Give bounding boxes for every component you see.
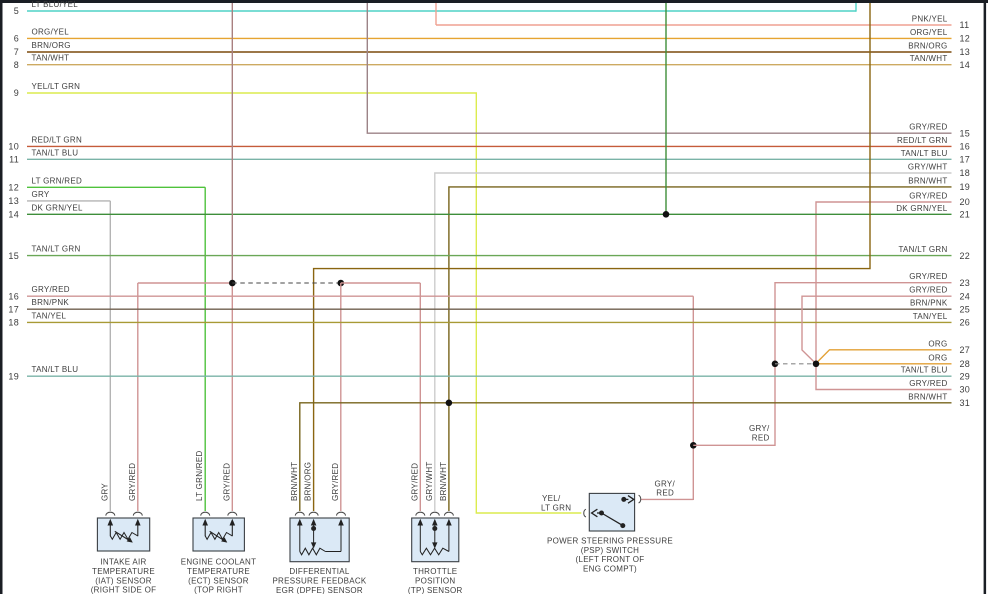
svg-text:19: 19 <box>8 371 19 381</box>
svg-text:BRN/PNK: BRN/PNK <box>910 299 948 308</box>
svg-text:GRY/RED: GRY/RED <box>909 379 947 388</box>
wire BRN/WHT pin19 to TP sensor <box>449 187 952 511</box>
svg-text:RED/LT GRN: RED/LT GRN <box>897 136 948 145</box>
svg-text:BRN/WHT: BRN/WHT <box>908 392 947 401</box>
svg-text:11: 11 <box>9 155 19 165</box>
resistor element <box>110 533 138 540</box>
connector arc at x=434.8 <box>430 512 439 515</box>
svg-text:TEMPERATURE: TEMPERATURE <box>92 567 155 576</box>
svg-text:DK GRN/YEL: DK GRN/YEL <box>896 204 948 213</box>
svg-text:TAN/LT GRN: TAN/LT GRN <box>32 245 81 254</box>
svg-text:(LEFT FRONT OF: (LEFT FRONT OF <box>576 555 645 564</box>
svg-text:14: 14 <box>8 210 19 220</box>
svg-text:GRY/RED: GRY/RED <box>410 463 419 501</box>
svg-text:DK GRN/YEL: DK GRN/YEL <box>32 203 84 212</box>
svg-text:10: 10 <box>8 142 19 152</box>
wire TAN/LT BLU pin19-pin29 <box>27 375 952 377</box>
svg-text:GRY/RED: GRY/RED <box>128 463 137 501</box>
wire GRY/RED pin15 from top <box>367 3 951 133</box>
svg-text:29: 29 <box>960 371 971 381</box>
svg-text:POWER STEERING PRESSURE: POWER STEERING PRESSURE <box>547 537 673 546</box>
svg-text:TAN/LT BLU: TAN/LT BLU <box>901 149 948 158</box>
svg-text:6: 6 <box>14 34 19 44</box>
wire PNK/YEL pin11 <box>436 24 952 26</box>
PSP right terminal arrow <box>624 498 629 500</box>
svg-text:PRESSURE FEEDBACK: PRESSURE FEEDBACK <box>272 577 366 586</box>
svg-text:BRN/WHT: BRN/WHT <box>290 462 299 501</box>
wire GRY pin13 run <box>27 200 110 202</box>
wire BRN/PNK pin17-pin25 <box>27 308 952 310</box>
wire YEL/LT GRN pin9 to PSP switch <box>27 93 581 513</box>
svg-text:17: 17 <box>960 155 971 165</box>
wire BRN/WHT pin31 from DPFE sensor <box>300 403 952 511</box>
svg-text:19: 19 <box>960 182 971 192</box>
svg-text:TAN/LT BLU: TAN/LT BLU <box>32 148 79 157</box>
svg-text:13: 13 <box>8 196 19 206</box>
svg-text:RED: RED <box>656 489 674 498</box>
wire TAN/YEL pin18-pin26 <box>27 321 952 323</box>
svg-text:TAN/LT BLU: TAN/LT BLU <box>901 366 948 375</box>
connector frame bar (top) <box>0 0 988 3</box>
svg-text:12: 12 <box>960 34 971 44</box>
terminal arrows <box>204 523 206 537</box>
svg-text:ORG: ORG <box>928 339 947 348</box>
svg-text:27: 27 <box>960 345 971 355</box>
wire DK GRN/YEL riser from top <box>665 3 667 214</box>
svg-text:GRY/: GRY/ <box>654 479 675 488</box>
svg-text:30: 30 <box>960 385 971 395</box>
svg-text:BRN/ORG: BRN/ORG <box>32 41 71 50</box>
svg-text:GRY/RED: GRY/RED <box>909 272 947 281</box>
svg-text:GRY/: GRY/ <box>749 424 770 433</box>
wire TAN/LT BLU pin11-pin17 <box>27 158 952 160</box>
svg-text:11: 11 <box>960 20 970 30</box>
svg-text:18: 18 <box>8 318 19 328</box>
wire GRY/RED riser from top through splice to ECT sensor <box>231 3 233 283</box>
svg-text:(ECT) SENSOR: (ECT) SENSOR <box>188 576 249 585</box>
svg-text:EGR (DPFE) SENSOR: EGR (DPFE) SENSOR <box>276 586 363 594</box>
connector frame bar (left) <box>0 0 3 594</box>
svg-text:GRY/RED: GRY/RED <box>222 463 231 501</box>
wire GRY/RED drop to DPFE sensor <box>340 283 342 511</box>
terminal arrows <box>419 523 421 552</box>
svg-text:LT GRN/RED: LT GRN/RED <box>32 176 83 185</box>
svg-text:THROTTLE: THROTTLE <box>413 567 457 576</box>
svg-text:26: 26 <box>960 318 971 328</box>
connector arc PSP right <box>639 495 641 503</box>
svg-text:ORG: ORG <box>928 353 947 362</box>
connector arc at x=420.3 <box>416 512 425 515</box>
svg-text:GRY/RED: GRY/RED <box>909 192 947 201</box>
svg-text:18: 18 <box>960 168 971 178</box>
wire LT GRN/RED drop to ECT sensor <box>204 187 206 511</box>
node junction splice J3 <box>813 361 820 368</box>
wire ORG pin27 to splice J3 <box>816 350 952 364</box>
svg-text:BRN/ORG: BRN/ORG <box>908 42 947 51</box>
svg-text:(PSP) SWITCH: (PSP) SWITCH <box>581 546 639 555</box>
svg-text:(TOP RIGHT: (TOP RIGHT <box>194 586 243 594</box>
connector arc at x=313.6 <box>309 512 318 515</box>
svg-text:TAN/YEL: TAN/YEL <box>32 311 67 320</box>
node junction GRY/RED J2 <box>772 361 779 368</box>
svg-text:RED/LT GRN: RED/LT GRN <box>32 135 83 144</box>
variable arrow <box>210 531 226 541</box>
svg-text:ENGINE COOLANT: ENGINE COOLANT <box>181 558 257 567</box>
svg-text:BRN/WHT: BRN/WHT <box>908 176 947 185</box>
connector arc at x=299.8 <box>295 512 304 515</box>
connector arc at x=205.2 <box>201 512 210 515</box>
wire GRY/RED drop to TP sensor <box>419 283 421 511</box>
svg-text:(TP) SENSOR: (TP) SENSOR <box>408 586 463 594</box>
component TP sensor <box>412 518 459 562</box>
svg-text:TAN/LT GRN: TAN/LT GRN <box>898 245 947 254</box>
svg-text:23: 23 <box>960 278 971 288</box>
variable arrow <box>115 531 132 541</box>
node splice S1 GRY/RED <box>229 280 236 287</box>
component DPFE sensor <box>290 518 349 562</box>
wire TAN/LT GRN pin15-pin22 <box>27 255 952 257</box>
wire BRN/ORG from top to DPFE sensor <box>314 3 870 511</box>
svg-text:8: 8 <box>14 60 19 70</box>
wire RED/LT GRN pin10-pin16 <box>27 145 952 147</box>
PSP left terminal arrow <box>597 512 602 514</box>
svg-text:TEMPERATURE: TEMPERATURE <box>187 567 250 576</box>
svg-text:GRY/WHT: GRY/WHT <box>425 461 434 501</box>
wire ORG/YEL pin6-pin12 <box>27 37 952 39</box>
terminal arrows <box>109 523 111 537</box>
svg-text:21: 21 <box>960 210 971 220</box>
wire GRY/RED pin24 to splice J3 <box>802 296 952 363</box>
svg-text:LT BLU/YEL: LT BLU/YEL <box>32 0 79 9</box>
svg-text:(IAT) SENSOR: (IAT) SENSOR <box>95 576 152 585</box>
svg-text:TAN/YEL: TAN/YEL <box>913 312 948 321</box>
svg-text:20: 20 <box>960 197 971 207</box>
svg-text:PNK/YEL: PNK/YEL <box>912 15 948 24</box>
wire GRY/RED splice IAT-ECT <box>138 282 233 284</box>
svg-text:15: 15 <box>8 251 19 261</box>
svg-text:14: 14 <box>960 60 971 70</box>
PSP switch contacts <box>599 511 604 516</box>
svg-text:TAN/LT BLU: TAN/LT BLU <box>32 365 79 374</box>
svg-text:17: 17 <box>8 304 19 314</box>
svg-text:INTAKE AIR: INTAKE AIR <box>100 558 146 567</box>
wire GRY/RED pin20 down to splice <box>816 202 952 364</box>
svg-text:ORG/YEL: ORG/YEL <box>32 27 70 36</box>
svg-text:12: 12 <box>8 183 19 193</box>
connector arc at x=110.3 <box>106 512 115 515</box>
wire GRY drop to IAT sensor <box>109 201 111 511</box>
svg-text:28: 28 <box>960 359 971 369</box>
wire LT BLU/YEL pin5 <box>27 10 856 12</box>
component ECT sensor <box>193 518 244 551</box>
node junction GRY/RED J1 <box>690 442 697 449</box>
svg-text:25: 25 <box>960 304 971 314</box>
component PSP switch <box>589 493 634 531</box>
connector arc at x=448.9 <box>444 512 453 515</box>
svg-text:24: 24 <box>960 291 971 301</box>
svg-text:16: 16 <box>960 142 971 152</box>
resistor element <box>205 533 232 540</box>
svg-text:BRN/WHT: BRN/WHT <box>439 462 448 501</box>
wire GRY/RED splice S1-S2 (dashed splice) <box>232 282 340 284</box>
svg-text:GRY/RED: GRY/RED <box>909 286 947 295</box>
svg-text:15: 15 <box>960 128 971 138</box>
terminal arrows <box>299 523 301 552</box>
svg-text:TAN/WHT: TAN/WHT <box>32 54 70 63</box>
svg-text:YEL/LT GRN: YEL/LT GRN <box>32 82 81 91</box>
connector arc PSP left <box>584 509 586 517</box>
svg-text:GRY: GRY <box>100 483 109 501</box>
connector arc at x=341 <box>337 512 346 515</box>
connector arc at x=137.8 <box>133 512 142 515</box>
svg-text:DIFFERENTIAL: DIFFERENTIAL <box>289 567 350 576</box>
resistor element <box>300 548 326 555</box>
component IAT sensor <box>97 518 149 551</box>
wire splice link J2-J3 (dashed splice) <box>775 363 816 365</box>
svg-text:9: 9 <box>14 88 19 98</box>
svg-text:(RIGHT SIDE OF: (RIGHT SIDE OF <box>91 586 157 594</box>
wire PNK/YEL riser from top <box>435 3 437 25</box>
svg-text:ORG/YEL: ORG/YEL <box>910 28 948 37</box>
svg-text:31: 31 <box>960 398 971 408</box>
svg-text:GRY/RED: GRY/RED <box>32 285 70 294</box>
svg-text:13: 13 <box>960 47 971 57</box>
svg-text:5: 5 <box>14 6 19 16</box>
node junction DK GRN/YEL <box>663 211 670 218</box>
wire GRY/RED splice S2 to TP drop <box>341 282 421 284</box>
svg-text:LT GRN: LT GRN <box>541 504 571 513</box>
wire DK GRN/YEL pin14-pin21 <box>27 213 952 215</box>
svg-text:7: 7 <box>14 47 19 57</box>
PSP switch blade <box>602 513 623 526</box>
svg-text:ENG COMPT): ENG COMPT) <box>583 564 637 573</box>
wire GRY/RED pin16 run <box>27 295 693 297</box>
svg-text:TAN/WHT: TAN/WHT <box>910 54 948 63</box>
svg-text:RED: RED <box>752 434 770 443</box>
svg-text:GRY: GRY <box>32 190 50 199</box>
wire GRY/RED pin16 drop to PSP <box>692 296 694 500</box>
wire GRY/RED pin23 to junction J1 <box>693 283 951 446</box>
wire GRY/RED splice to ECT sensor <box>231 283 233 511</box>
svg-text:BRN/ORG: BRN/ORG <box>304 462 313 501</box>
wire GRY/RED to PSP switch <box>641 498 694 500</box>
svg-text:GRY/RED: GRY/RED <box>331 463 340 501</box>
connector frame bar (right) <box>984 0 987 594</box>
svg-text:16: 16 <box>8 291 19 301</box>
wire GRY/RED from IAT sensor <box>137 283 139 511</box>
wire LT GRN/RED pin12 run <box>27 186 205 188</box>
resistor element <box>420 548 449 555</box>
svg-text:BRN/PNK: BRN/PNK <box>32 298 70 307</box>
svg-text:22: 22 <box>960 251 971 261</box>
svg-text:GRY/WHT: GRY/WHT <box>908 163 948 172</box>
svg-text:LT GRN/RED: LT GRN/RED <box>195 450 204 501</box>
node junction BRN/WHT TP tap <box>446 400 453 407</box>
wire GRY/WHT pin18 to TP sensor <box>435 173 952 511</box>
wire GRY/RED pin30 from splice J3 <box>816 364 952 390</box>
svg-text:YEL/: YEL/ <box>542 494 561 503</box>
svg-text:GRY/RED: GRY/RED <box>909 123 947 132</box>
wire BRN/ORG pin7-pin13 <box>27 51 952 53</box>
node splice S2 GRY/RED <box>338 280 345 287</box>
connector arc at x=232.3 <box>228 512 237 515</box>
svg-text:POSITION: POSITION <box>415 577 455 586</box>
wire TAN/WHT pin8-pin14 <box>27 64 952 66</box>
wire LT BLU/YEL riser to top <box>855 3 857 12</box>
wire ORG pin28 from splice J3 <box>816 363 952 365</box>
